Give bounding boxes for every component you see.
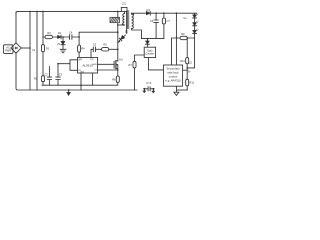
svg-text:C3: C3 [59,73,63,77]
svg-text:U2: U2 [189,61,193,65]
svg-text:PWR: PWR [5,49,11,53]
svg-text:C11: C11 [122,4,127,6]
svg-text:R8: R8 [112,77,116,81]
svg-text:R1: R1 [46,47,50,51]
svg-text:R10: R10 [180,59,185,63]
svg-text:C2: C2 [44,73,48,77]
svg-text:R7: R7 [128,63,132,67]
svg-text:Vo: Vo [183,16,187,20]
svg-text:5V: 5V [188,72,191,74]
svg-text:e.g. AP4310: e.g. AP4310 [165,79,181,83]
svg-text:R9: R9 [181,32,185,36]
svg-text:D4: D4 [147,8,151,12]
svg-text:R4: R4 [81,47,85,51]
svg-text:C6: C6 [150,19,154,23]
svg-text:D1: D1 [58,31,62,35]
svg-text:R11: R11 [190,81,195,85]
svg-text:D2: D2 [125,30,129,34]
svg-text:GND: GND [80,71,85,73]
svg-text:R5: R5 [103,42,107,46]
svg-text:M1: M1 [119,57,123,61]
svg-text:C1: C1 [32,48,36,52]
svg-text:C7: C7 [167,19,171,23]
svg-text:C4: C4 [69,30,73,34]
svg-text:Coupler: Coupler [145,53,154,56]
svg-text:CS: CS [94,70,97,72]
svg-text:CY2: CY2 [146,81,152,85]
svg-text:R3: R3 [47,31,51,35]
svg-text:R2: R2 [34,77,38,81]
svg-text:GATE: GATE [92,63,98,66]
svg-text:Z1: Z1 [57,42,61,46]
svg-text:C5: C5 [93,43,97,47]
svg-text:VDD: VDD [90,59,94,61]
